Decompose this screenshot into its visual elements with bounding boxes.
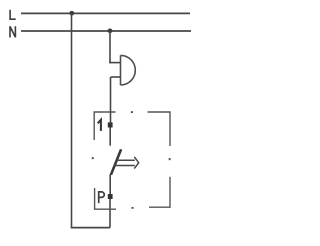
- wire buzzer to terminal 1: [110, 77, 112, 123]
- wire left vertical from L: [71, 13, 73, 227]
- junction on L: [69, 11, 74, 16]
- enclosure bottom edge dot: [131, 207, 133, 209]
- terminal P label: [99, 192, 105, 203]
- enclosure left edge dot: [92, 157, 94, 159]
- wire terminal 1 to switch fixed contact: [109, 128, 111, 146]
- enclosure bottom-right corner: [149, 177, 170, 207]
- terminal 1 square: [108, 122, 113, 127]
- buzzer (bell) symbol: [121, 55, 136, 85]
- enclosure right edge dot: [169, 158, 171, 160]
- wire switch to terminal P: [109, 175, 111, 195]
- switch lever (moving contact): [111, 149, 121, 175]
- wire N line: [21, 30, 191, 32]
- enclosure dash-dot box top-left corner: [94, 112, 115, 140]
- wire stub to buzzer top terminal: [109, 62, 120, 64]
- actuation arrow open head: [134, 157, 138, 169]
- wire L line: [21, 12, 190, 14]
- node L label: [10, 10, 16, 19]
- node N label: [10, 26, 15, 37]
- junction on N: [108, 28, 113, 33]
- terminal 1 label: [98, 120, 101, 131]
- wire from N junction down: [109, 31, 111, 64]
- enclosure bottom-left corner: [95, 188, 116, 209]
- enclosure top-right corner: [148, 112, 171, 146]
- wire stub from buzzer bottom terminal: [111, 76, 121, 78]
- enclosure top edge dot: [131, 111, 133, 113]
- terminal P square: [108, 194, 113, 199]
- wire terminal P down: [109, 199, 111, 228]
- actuation arrow shaft upper line: [117, 159, 135, 161]
- wire bottom horizontal: [71, 227, 110, 229]
- actuation arrow shaft lower line: [114, 165, 134, 167]
